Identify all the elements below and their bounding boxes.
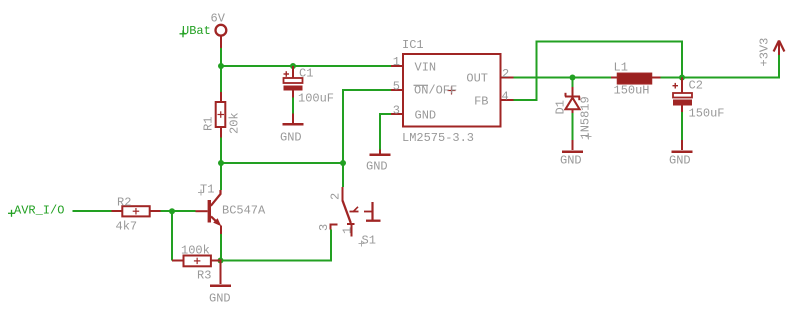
svg-text:FB: FB: [474, 95, 488, 109]
svg-text:GND: GND: [366, 160, 388, 174]
svg-text:GND: GND: [669, 154, 691, 168]
svg-text:4k7: 4k7: [116, 220, 138, 234]
svg-text:VIN: VIN: [415, 61, 437, 75]
svg-text:D1: D1: [554, 100, 568, 114]
svg-text:20k: 20k: [228, 112, 242, 134]
svg-text:1N5819: 1N5819: [579, 96, 593, 139]
svg-text:6V: 6V: [211, 12, 226, 26]
svg-text:GND: GND: [280, 131, 302, 145]
svg-text:C1: C1: [299, 67, 313, 81]
svg-text:5: 5: [393, 80, 400, 94]
svg-text:GND: GND: [560, 154, 582, 168]
svg-text:S1: S1: [362, 234, 376, 248]
svg-text:T1: T1: [200, 183, 214, 197]
svg-text:2: 2: [502, 67, 509, 81]
svg-text:UBat: UBat: [182, 24, 211, 38]
svg-text:100k: 100k: [181, 244, 210, 258]
svg-text:4: 4: [502, 90, 509, 104]
svg-text:OUT: OUT: [466, 72, 488, 86]
svg-text:R1: R1: [202, 117, 216, 131]
svg-text:150uF: 150uF: [689, 107, 725, 121]
svg-text:R3: R3: [197, 269, 211, 283]
svg-text:GND: GND: [209, 292, 231, 306]
svg-text:C2: C2: [689, 79, 703, 93]
svg-text:100uF: 100uF: [298, 92, 334, 106]
svg-text:1: 1: [393, 55, 400, 69]
svg-text:AVR_I/O: AVR_I/O: [14, 204, 64, 218]
svg-text:BC547A: BC547A: [222, 204, 266, 218]
svg-text:3: 3: [393, 104, 400, 118]
svg-text:R2: R2: [117, 196, 131, 210]
svg-text:1: 1: [341, 227, 355, 234]
svg-text:GND: GND: [415, 109, 437, 123]
svg-text:LM2575-3.3: LM2575-3.3: [402, 131, 474, 145]
svg-text:+3V3: +3V3: [758, 38, 772, 67]
svg-text:2: 2: [329, 193, 343, 200]
svg-text:L1: L1: [614, 61, 628, 75]
svg-text:150uH: 150uH: [614, 84, 650, 98]
svg-text:3: 3: [317, 224, 331, 231]
svg-text:IC1: IC1: [402, 38, 424, 52]
